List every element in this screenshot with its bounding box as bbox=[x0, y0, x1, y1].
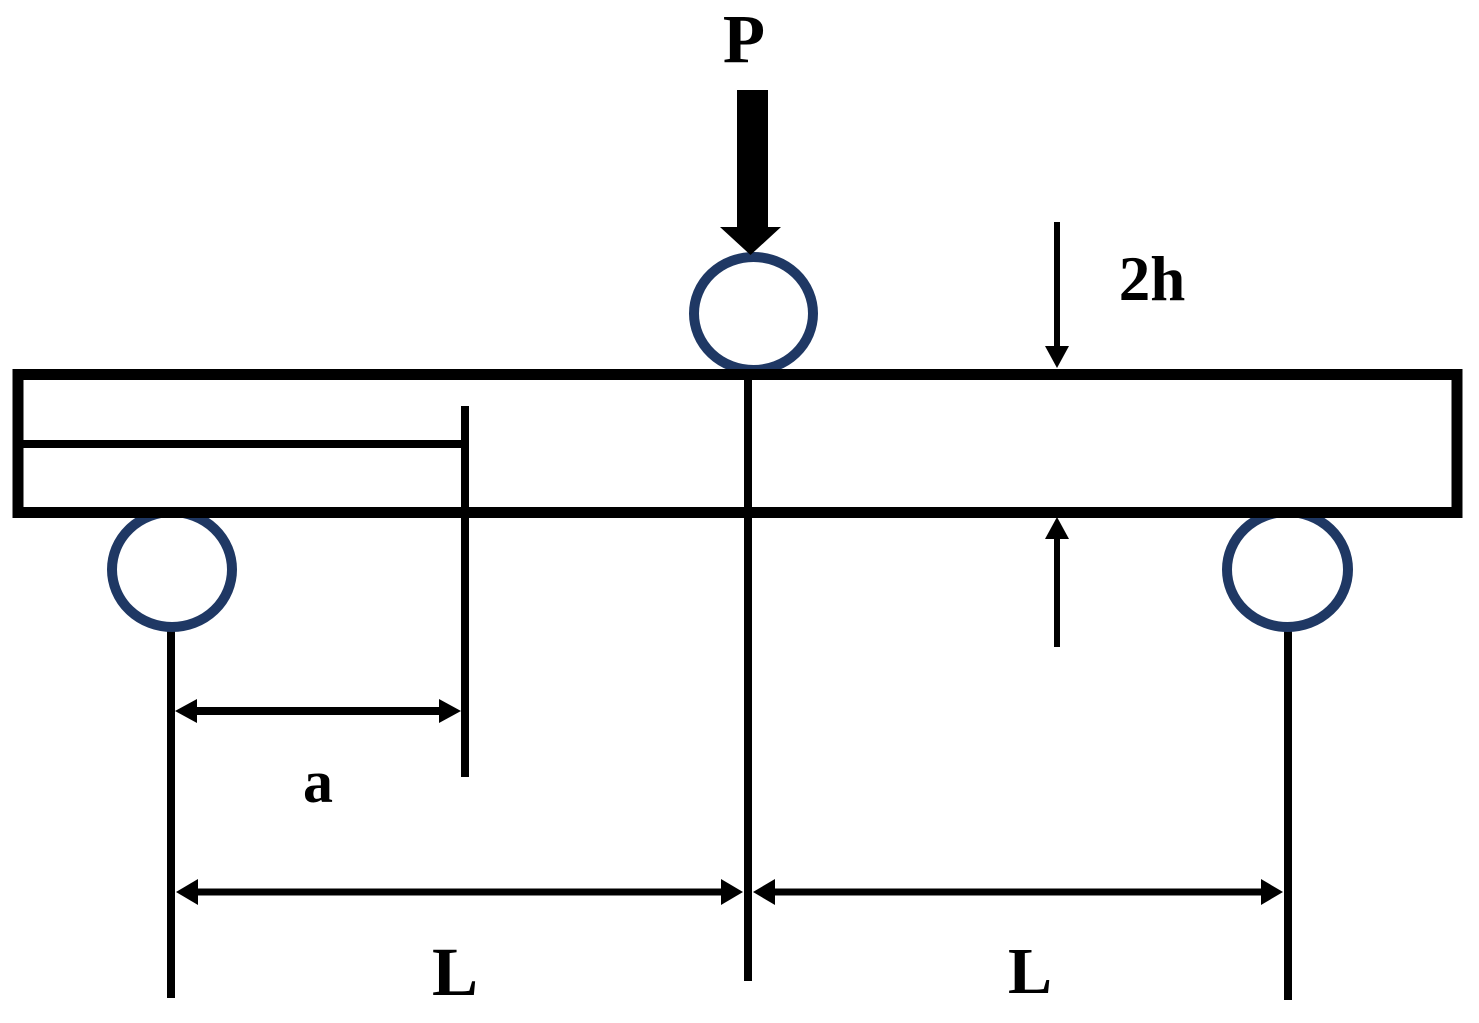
svg-text:P: P bbox=[723, 1, 765, 77]
dimension L left double arrow bbox=[176, 879, 743, 905]
right support roller bbox=[1227, 512, 1348, 627]
dimension L right double arrow bbox=[753, 879, 1283, 905]
svg-text:a: a bbox=[303, 749, 333, 815]
crack tip tick line bbox=[461, 406, 469, 777]
loading roller (top circle) bbox=[694, 257, 813, 370]
beam specimen rectangle bbox=[18, 375, 1457, 513]
svg-text:L: L bbox=[1008, 935, 1052, 1008]
svg-text:2h: 2h bbox=[1119, 244, 1186, 314]
dimension a double arrow bbox=[175, 699, 461, 723]
right support extension line bbox=[1284, 628, 1292, 1000]
center load line bbox=[744, 375, 752, 981]
force P block arrow bbox=[720, 90, 781, 255]
left support extension line bbox=[167, 628, 175, 998]
svg-text:L: L bbox=[432, 934, 478, 1010]
crack line (mid-plane delamination) bbox=[18, 440, 465, 448]
2h upper dimension arrow (down) bbox=[1045, 222, 1069, 368]
left support roller bbox=[112, 512, 232, 627]
2h lower dimension arrow (up) bbox=[1045, 517, 1069, 647]
